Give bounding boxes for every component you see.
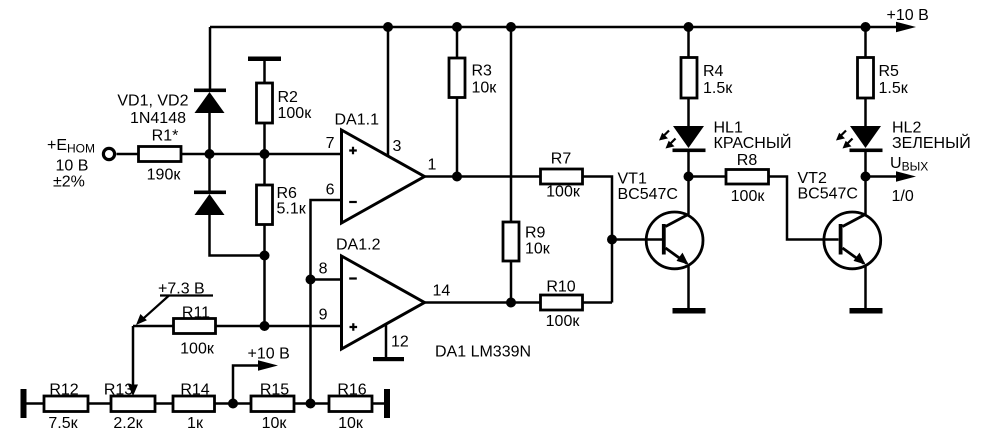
terminator bar right of chain <box>384 389 390 418</box>
svg-text:R4: R4 <box>703 63 724 80</box>
wire VT1 emitter to ground <box>687 265 690 309</box>
node input/VD junction <box>205 149 215 159</box>
svg-text:R8: R8 <box>737 152 758 169</box>
svg-text:R15: R15 <box>260 382 289 399</box>
node R9/output2 <box>506 298 516 308</box>
wire VD1 to input line <box>208 113 211 154</box>
ground bar VT2 <box>850 308 883 314</box>
svg-text:R12: R12 <box>49 382 78 399</box>
wire R1 to DA1.1 pin7 <box>181 153 342 156</box>
svg-text:6: 6 <box>326 182 335 199</box>
svg-text:R10: R10 <box>546 279 575 296</box>
chassis bar above R2 <box>248 57 281 62</box>
resistor R7 100k <box>541 151 583 201</box>
wire R11 left lead / node corner <box>133 325 174 328</box>
svg-text:R14: R14 <box>180 382 209 399</box>
svg-text:3: 3 <box>393 138 402 155</box>
svg-text:10к: 10к <box>262 415 288 432</box>
svg-text:14: 14 <box>433 283 451 300</box>
svg-text:R9: R9 <box>525 225 546 242</box>
svg-text:100к: 100к <box>278 105 313 122</box>
wire chain R16-bar <box>372 402 385 405</box>
svg-text:BC547C: BC547C <box>798 186 858 203</box>
svg-text:2.2к: 2.2к <box>113 415 143 432</box>
resistor R8 100k <box>726 152 769 205</box>
wire pin3 to top rail <box>387 27 390 157</box>
svg-text:R5: R5 <box>879 63 900 80</box>
svg-text:100к: 100к <box>731 188 766 205</box>
wire VT2 collector <box>864 177 867 215</box>
wire chain R12-R13 <box>88 402 111 405</box>
svg-text:9: 9 <box>319 307 328 324</box>
resistor R16 10k <box>329 382 372 433</box>
resistor R4 1.5k <box>681 58 733 99</box>
diode VD1 1N4148 <box>117 89 226 128</box>
resistor R5 1.5k <box>858 58 909 99</box>
wire +10V top rail <box>210 26 899 29</box>
resistor R12 7.5k <box>44 382 88 433</box>
node R3/output1 <box>452 172 462 182</box>
wire chain bar-R12 <box>27 402 45 405</box>
label +7.3 V with leader arrow <box>136 281 213 326</box>
wire chain R13-R14 <box>155 402 173 405</box>
input terminal +E nom <box>47 137 115 191</box>
resistor R9 10k <box>503 222 551 261</box>
diode VD2 1N4148 <box>194 191 226 216</box>
wire R6 bottom down to pin9 line <box>263 225 266 327</box>
wire chain R15-R16 <box>294 402 329 405</box>
resistor R1 190k <box>139 128 182 184</box>
ground bar VT1 <box>673 308 706 314</box>
wire R5 to HL2 <box>864 98 867 127</box>
wire R2 to input line <box>263 123 266 154</box>
svg-text:VD1, VD2: VD1, VD2 <box>117 93 188 110</box>
wire R3 to output line <box>456 98 459 177</box>
node R4 on rail <box>684 22 694 32</box>
wire R8 to VT2 base <box>769 177 839 240</box>
node +10V tap on chain <box>228 399 238 409</box>
resistor R13 2.2k trimmer <box>104 382 155 433</box>
wire R10 right to base column <box>583 301 613 304</box>
svg-text:10 В: 10 В <box>56 158 89 175</box>
svg-text:HL1: HL1 <box>714 120 743 137</box>
resistor R3 10k <box>449 58 497 98</box>
transistor VT1 BC547C <box>618 171 703 269</box>
svg-text:DA1.2: DA1.2 <box>336 237 381 254</box>
node HL2/VT2 collector/output <box>861 172 871 182</box>
node input/R2-R6 junction <box>260 149 270 159</box>
svg-text:1.5к: 1.5к <box>879 80 909 97</box>
wire pin8 <box>311 278 342 281</box>
node pin3 on rail <box>383 22 393 32</box>
svg-text:1/0: 1/0 <box>892 188 914 205</box>
svg-text:1.5к: 1.5к <box>703 80 733 97</box>
wire rail to R9 (crosses output line) <box>510 27 513 222</box>
op-amp DA1.1 <box>326 112 437 224</box>
ground bar pin12 <box>373 357 404 361</box>
svg-text:10к: 10к <box>338 415 364 432</box>
op-amp DA1.2 <box>319 237 451 351</box>
wire R9 to output2 line <box>510 261 513 303</box>
resistor R10 100k <box>541 279 583 331</box>
svg-text:BC547C: BC547C <box>618 186 678 203</box>
svg-text:10к: 10к <box>472 80 498 97</box>
node R5 on rail <box>861 22 871 32</box>
svg-text:7: 7 <box>326 135 335 152</box>
node VD2/R6 bottom <box>260 251 270 261</box>
svg-text:1N4148: 1N4148 <box>130 110 186 127</box>
wire DA1.1 output line <box>425 175 541 178</box>
resistor R14 1k <box>173 382 215 433</box>
svg-text:VT2: VT2 <box>798 170 827 187</box>
node pin6/8 drop on chain <box>306 399 316 409</box>
wire R4 to HL1 <box>687 98 690 127</box>
wire input terminal to R1 <box>117 153 139 156</box>
wire R7 to VT1 base column <box>583 177 613 303</box>
node R3 on rail <box>452 22 462 32</box>
resistor R15 10k <box>251 382 294 433</box>
wire pin6/pin8 common <box>311 200 342 404</box>
wire rail to R3 <box>456 27 459 59</box>
wire HL2 to collector node <box>864 152 867 177</box>
svg-text:10к: 10к <box>525 241 551 258</box>
svg-text:VT1: VT1 <box>618 171 647 188</box>
svg-text:R6: R6 <box>277 185 298 202</box>
svg-text:12: 12 <box>391 334 409 351</box>
svg-text:8: 8 <box>319 261 328 278</box>
svg-text:+10 В: +10 В <box>887 7 929 24</box>
wire chassis bar to R2 <box>263 61 266 83</box>
wire VT1 base <box>612 238 662 241</box>
wire rail to R5 <box>864 27 867 57</box>
svg-text:R7: R7 <box>551 151 572 168</box>
svg-text:R3: R3 <box>472 63 493 80</box>
wire DA1.2 output line <box>425 301 541 304</box>
LED HL2 green <box>836 120 971 153</box>
svg-text:+10 В: +10 В <box>248 346 290 363</box>
wire left drop from rail to VD1 <box>209 27 212 89</box>
svg-text:R13: R13 <box>104 382 133 399</box>
wire node to R8 <box>689 175 727 178</box>
power arrow +10 V at chain <box>233 346 290 404</box>
wire pin12 to ground <box>385 325 388 358</box>
svg-text:1: 1 <box>428 157 437 174</box>
svg-text:5.1к: 5.1к <box>277 201 307 218</box>
svg-text:R16: R16 <box>337 382 366 399</box>
wire HL1 to collector node <box>687 152 690 177</box>
node R9 on rail <box>506 22 516 32</box>
transistor VT2 BC547C <box>798 170 881 269</box>
wire input line to VD2 <box>208 154 211 191</box>
node VT1 base <box>607 235 617 245</box>
node HL1/R8/VT1 collector <box>684 172 694 182</box>
svg-text:R1*: R1* <box>152 128 179 145</box>
svg-text:HL2: HL2 <box>892 120 921 137</box>
wire R13 wiper arrow <box>128 326 138 396</box>
svg-text:1к: 1к <box>187 415 204 432</box>
svg-text:100к: 100к <box>546 313 581 330</box>
svg-text:ЗЕЛЕНЫЙ: ЗЕЛЕНЫЙ <box>892 133 971 152</box>
svg-text:R11: R11 <box>182 305 210 322</box>
wire VD2 bottom to R6 bottom node <box>210 215 265 256</box>
svg-text:7.5к: 7.5к <box>48 415 78 432</box>
svg-text:100к: 100к <box>546 184 581 201</box>
wire R11 to DA1.2 pin9 <box>216 325 342 328</box>
svg-text:R2: R2 <box>278 89 299 106</box>
power arrow +10 V top right <box>887 7 929 32</box>
wire VT1 collector <box>687 177 690 215</box>
svg-text:±2%: ±2% <box>53 174 85 191</box>
terminator bar left of chain <box>21 389 27 418</box>
node R6/pin9 line <box>260 321 270 331</box>
wire rail to R4 <box>687 27 690 57</box>
resistor R11 100k <box>174 305 216 358</box>
output arrow U vyh <box>866 155 929 205</box>
resistor R6 5.1k <box>257 185 307 225</box>
wire input line to R6 <box>263 154 266 185</box>
svg-text:КРАСНЫЙ: КРАСНЫЙ <box>714 133 792 152</box>
svg-text:DA1.1: DA1.1 <box>335 112 380 129</box>
wire VT2 emitter to ground <box>864 265 867 309</box>
svg-text:100к: 100к <box>180 341 215 358</box>
LED HL1 red <box>659 120 792 153</box>
svg-text:190к: 190к <box>147 167 182 184</box>
wire chain R14-R15 <box>215 402 252 405</box>
svg-text:DA1 LM339N: DA1 LM339N <box>435 344 531 361</box>
node pin8 tap <box>306 275 316 285</box>
resistor R2 100k <box>257 83 313 123</box>
